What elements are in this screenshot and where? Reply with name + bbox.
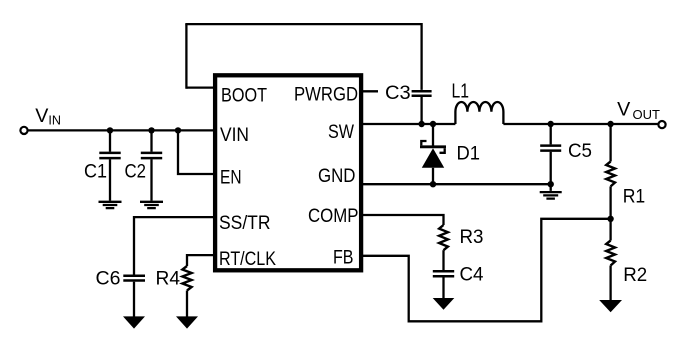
node junction dot C3/SW <box>418 121 424 127</box>
wire R4 bottom lead <box>186 291 188 318</box>
wire R1 bottom lead <box>609 186 611 218</box>
value label D1 <box>457 143 481 165</box>
node junction dot FB/R1/R2 <box>607 216 613 222</box>
svg-text:IN: IN <box>48 114 61 128</box>
wire C3 bottom to SW node <box>420 97 422 124</box>
pin label FB <box>333 247 354 269</box>
svg-text:V: V <box>617 99 631 121</box>
ground earth symbol under C1 <box>99 202 122 208</box>
diode D1 schottky cathode bar with hooks <box>420 141 446 153</box>
op-amp U1 IC body <box>215 75 361 270</box>
wire FB feedback path <box>361 219 610 321</box>
wire C2 top lead <box>150 130 152 151</box>
wire D1 anode lead <box>432 168 434 184</box>
svg-text:PWRGD: PWRGD <box>294 84 358 106</box>
ground arrow under C6 <box>123 316 145 328</box>
value label R4 <box>156 268 181 290</box>
wire bootstrap loop left vertical <box>185 24 187 89</box>
wire C1 top lead <box>109 130 111 151</box>
svg-text:L1: L1 <box>452 81 470 103</box>
wire bootstrap loop top horizontal <box>185 23 421 25</box>
svg-text:FB: FB <box>333 247 354 269</box>
wire EN branch <box>178 130 215 174</box>
pin label SW <box>328 121 355 143</box>
capacitor C4 <box>433 271 454 276</box>
svg-text:GND: GND <box>318 165 356 187</box>
svg-text:OUT: OUT <box>633 107 661 122</box>
ground earth symbol under C5 <box>540 184 562 198</box>
wire R1 top lead <box>609 124 611 162</box>
node junction dot D1/GND <box>430 181 436 187</box>
svg-text:RT/CLK: RT/CLK <box>219 248 276 270</box>
wire GND pin to C5 ground <box>361 183 551 185</box>
value label C2 <box>125 161 147 183</box>
wire C4 bottom lead <box>442 278 444 299</box>
svg-text:C6: C6 <box>96 268 121 290</box>
pin label PWRGD <box>294 84 358 106</box>
ground earth symbol under C2 <box>140 202 163 208</box>
wire L1 to VOUT rail <box>503 123 658 125</box>
value label C3 <box>385 82 411 104</box>
wire SW output <box>361 123 455 125</box>
wire RT/CLK branch <box>187 255 215 266</box>
wire BOOT pin stub <box>186 86 215 88</box>
ground arrow under R2 <box>599 300 622 312</box>
node junction dot D1/SW <box>430 121 436 127</box>
svg-text:R3: R3 <box>460 226 484 248</box>
node junction dot C1/VIN <box>107 127 113 133</box>
svg-text:V: V <box>35 105 49 127</box>
pin label VIN <box>220 124 249 146</box>
ground arrow under R4 <box>176 316 198 328</box>
svg-text:R4: R4 <box>156 268 181 290</box>
pin stub PWRGD <box>361 90 378 92</box>
svg-text:SW: SW <box>328 121 355 143</box>
diode D1 anode triangle <box>422 148 444 168</box>
svg-text:COMP: COMP <box>308 205 359 227</box>
svg-text:C1: C1 <box>84 161 107 183</box>
wire C5 top lead <box>550 124 552 144</box>
capacitor C3 <box>412 91 432 96</box>
ground arrow under C4 <box>433 298 455 310</box>
resistor R1 <box>606 162 615 187</box>
wire COMP branch <box>361 215 443 225</box>
svg-text:C4: C4 <box>460 264 484 286</box>
node junction dot C5/GND <box>548 181 554 187</box>
resistor R2 <box>606 241 615 266</box>
pin label EN <box>220 167 242 189</box>
value label C6 <box>96 268 121 290</box>
value label R1 <box>623 186 646 208</box>
pin label BOOT <box>221 84 267 106</box>
resistor R3 <box>439 225 448 250</box>
wire R2 top lead <box>609 219 611 241</box>
node junction dot C5/out <box>548 121 554 127</box>
wire C6 bottom lead <box>133 282 135 317</box>
inductor L1 <box>455 102 503 124</box>
capacitor C1 <box>99 153 120 158</box>
svg-text:C3: C3 <box>385 82 411 104</box>
svg-text:SS/TR: SS/TR <box>219 212 271 234</box>
pin label SS/TR <box>219 212 271 234</box>
svg-text:R2: R2 <box>623 264 647 286</box>
svg-text:R1: R1 <box>623 186 646 208</box>
wire VIN input rail <box>28 129 216 131</box>
value label C4 <box>460 264 484 286</box>
pin label COMP <box>308 205 359 227</box>
resistor R4 <box>182 266 191 291</box>
wire R3 to C4 <box>442 250 444 270</box>
terminal VOUT circle <box>658 121 665 128</box>
svg-text:C5: C5 <box>568 140 592 162</box>
svg-text:D1: D1 <box>457 143 481 165</box>
pin label GND <box>318 165 356 187</box>
wire D1 cathode lead <box>432 124 434 146</box>
node junction dot EN/VIN <box>175 127 181 133</box>
wire C2 bottom lead <box>150 159 152 200</box>
value label C1 <box>84 161 107 183</box>
terminal VIN input circle <box>20 127 27 134</box>
svg-text:C2: C2 <box>125 161 147 183</box>
node junction dot C2/VIN <box>148 127 154 133</box>
value label L1 <box>452 81 470 103</box>
node VIN label <box>35 105 61 128</box>
capacitor C5 <box>540 146 561 151</box>
pin label RT/CLK <box>219 248 276 270</box>
svg-text:BOOT: BOOT <box>221 84 267 106</box>
wire SS/TR branch <box>134 217 215 274</box>
value label C5 <box>568 140 592 162</box>
value label R2 <box>623 264 647 286</box>
svg-text:VIN: VIN <box>220 124 249 146</box>
wire R2 bottom lead <box>609 266 611 301</box>
node VOUT label <box>617 99 660 122</box>
wire C5 bottom lead <box>550 152 552 184</box>
node junction dot R1/out <box>607 121 613 127</box>
capacitor C6 <box>123 276 145 281</box>
capacitor C2 <box>141 153 162 158</box>
wire bootstrap loop right vertical down to C3 <box>420 23 422 90</box>
value label R3 <box>460 226 484 248</box>
wire C1 bottom lead <box>109 159 111 200</box>
svg-text:EN: EN <box>220 167 242 189</box>
